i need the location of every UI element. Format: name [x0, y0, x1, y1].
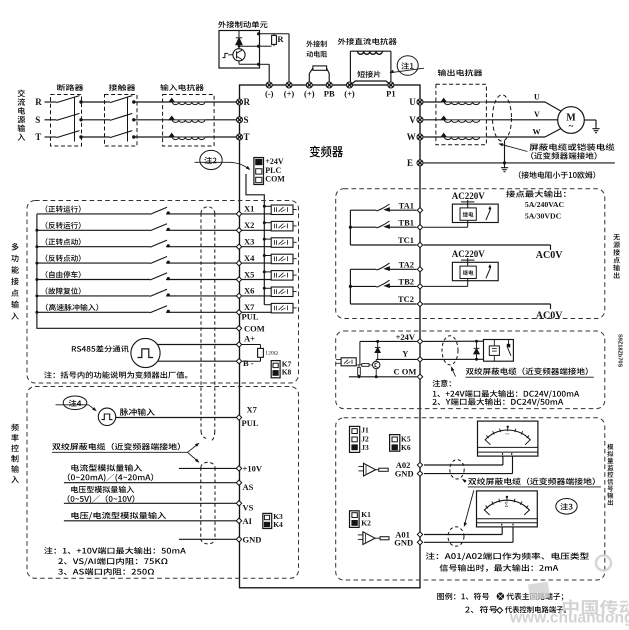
svg-text:TB2: TB2 — [398, 277, 414, 287]
svg-text:V: V — [534, 110, 540, 119]
group box analog outputs (dashed) — [336, 418, 605, 580]
notes analog input — [44, 547, 186, 554]
switch block K5/K6 — [390, 435, 400, 452]
svg-text:Σ: Σ — [505, 502, 509, 509]
svg-text:(+): (+) — [304, 89, 315, 99]
wire coil to TB1 — [467, 220, 469, 227]
breaker pole T — [54, 136, 57, 138]
svg-text:AC0V: AC0V — [536, 250, 563, 261]
node brake unit bottom-right — [257, 63, 260, 66]
wire brake unit top rail to (+) — [259, 33, 289, 35]
wire V to motor — [486, 119, 557, 121]
wire RS485 to B- — [158, 360, 237, 362]
terminal U — [417, 99, 423, 105]
wire meter A01 right to GND — [512, 527, 514, 542]
breaker trip link — [74, 97, 76, 142]
svg-text:U: U — [534, 92, 540, 101]
switch block K3/K4 — [263, 513, 272, 528]
op-amp A02 — [364, 463, 376, 476]
svg-text:PB: PB — [324, 89, 335, 99]
wire RS485 to A+ — [157, 344, 236, 346]
circuit breaker 断路器 (dashed box) — [51, 95, 82, 147]
svg-text:~: ~ — [505, 431, 509, 439]
terminal X5 — [236, 277, 241, 282]
node brake top-right — [257, 32, 260, 35]
wire Y internal — [376, 358, 417, 360]
terminal AI — [236, 518, 241, 523]
legend line 1 — [437, 593, 489, 600]
wire breaker-contactor R — [81, 101, 108, 103]
terminal AS — [236, 480, 241, 485]
label 屏蔽电缆或铠装电缆 — [529, 143, 614, 150]
internal +24V rail — [360, 340, 417, 342]
optocoupler X5 — [271, 271, 293, 281]
optocoupler X7 — [271, 303, 293, 313]
note: factory default functions — [44, 371, 187, 378]
label relay max output 接点最大输出 — [506, 190, 565, 197]
wire to AI — [64, 520, 237, 522]
svg-text:K4: K4 — [273, 520, 283, 529]
wire X5 to optocoupler — [242, 279, 272, 281]
terminal COM (output) — [417, 374, 422, 379]
notes analog output — [426, 552, 589, 560]
vertical label 频率控制输入 — [11, 424, 19, 483]
shielded cable capsule (analog inputs) — [201, 462, 215, 467]
svg-text:W: W — [407, 132, 416, 142]
output reactor 输出电抗器 (dashed box) — [436, 84, 487, 144]
svg-text:R: R — [277, 34, 284, 44]
contact TB1 — [350, 226, 376, 228]
terminal X7/PUL — [236, 415, 241, 420]
vertical label 无源接点输出 — [613, 234, 620, 279]
wire diode bottom rail to box edge — [239, 45, 259, 47]
label 接地电阻小于10欧姆 — [519, 171, 595, 178]
wire breaker-contactor T — [81, 136, 108, 138]
contact TB2 — [350, 285, 376, 287]
wire to VS — [64, 502, 237, 504]
wire coil W to motor — [480, 136, 487, 138]
wire V to output reactor — [423, 119, 441, 121]
svg-text:PUL: PUL — [242, 312, 259, 322]
switch input X3 （正转点动） — [46, 238, 81, 245]
terminal X2 — [236, 228, 241, 233]
wire meter A02 right to GND — [512, 456, 514, 474]
svg-text:TC2: TC2 — [398, 294, 414, 304]
meter A01 — [477, 491, 538, 527]
svg-text:P1: P1 — [386, 89, 395, 99]
wire coil U to motor — [480, 101, 487, 103]
relay contact bracket TA2 — [349, 269, 351, 304]
svg-text:+24V: +24V — [265, 157, 284, 166]
wire reactor-S terminal — [205, 119, 237, 121]
wire S to breaker — [45, 119, 54, 121]
output reactor coil V — [441, 116, 446, 120]
wire R to breaker — [45, 101, 54, 103]
input reactor 输入电抗器 (dashed box) — [163, 95, 215, 147]
switch input X6 （故障复位） — [46, 287, 81, 294]
switch input X2 （反转运行） — [46, 222, 81, 229]
vertical label 模拟量监控信号输出 — [607, 444, 613, 506]
terminal VS — [236, 501, 241, 506]
terminal Y — [417, 357, 422, 362]
contactor pole R — [108, 101, 111, 103]
connector +24V/PLC/COM — [254, 158, 264, 185]
svg-text:X7: X7 — [247, 404, 258, 414]
svg-text:(+): (+) — [284, 89, 295, 99]
wire W to output reactor — [423, 136, 441, 138]
svg-text:X5: X5 — [244, 269, 254, 279]
wire U to motor — [486, 101, 545, 103]
svg-text:T: T — [244, 132, 250, 142]
internal opto coupler — [341, 358, 356, 366]
wire X1 to optocoupler — [242, 213, 272, 215]
terminating resistor 120ohm — [242, 344, 261, 346]
breaker pole R — [54, 101, 57, 103]
svg-text:5A/30VDC: 5A/30VDC — [525, 212, 562, 221]
terminal GND (A02) — [417, 471, 422, 476]
inverter main box 变频器 — [240, 85, 421, 588]
label 脉冲输入 — [120, 408, 155, 416]
svg-text:TA2: TA2 — [399, 260, 414, 270]
svg-text:K2: K2 — [361, 519, 371, 528]
external brake unit label 外接制动单元 — [218, 21, 267, 28]
input reactor coil S — [169, 116, 174, 120]
svg-text:AC0V: AC0V — [536, 310, 563, 321]
wire TC2 to AC0V — [423, 303, 550, 305]
svg-text:Y: Y — [402, 349, 408, 359]
terminal A01 — [417, 532, 422, 537]
optocoupler X1 — [271, 205, 293, 215]
node brake mid-right — [257, 45, 260, 48]
leader arrow to output cable — [500, 144, 528, 152]
svg-text:R: R — [244, 97, 251, 107]
terminal COM — [236, 326, 241, 331]
svg-text:X6: X6 — [244, 286, 254, 296]
terminal TC2 — [417, 301, 422, 306]
wire transistor emitter to bottom rail — [238, 61, 240, 64]
base resistor — [362, 364, 369, 367]
wire contactor-reactor R — [134, 101, 172, 103]
wire motor to ground — [584, 119, 596, 121]
wire X3 to optocoupler — [242, 246, 272, 248]
switch input X4 （反转点动） — [46, 255, 81, 262]
wire TC1 — [350, 244, 416, 246]
switch input X7 （高速脉冲输入） — [46, 304, 98, 311]
external DC reactor coil — [349, 51, 351, 82]
contact TA2 — [350, 268, 376, 270]
wire coil to TB2 — [467, 279, 469, 287]
wire +24V to external relay — [423, 340, 483, 342]
twisted pair ellipse A02 — [450, 460, 464, 479]
svg-text:V: V — [409, 115, 416, 125]
switch block K7/K8 — [271, 361, 280, 378]
terminal A+ — [236, 342, 241, 347]
svg-text:TA1: TA1 — [399, 200, 414, 210]
terminal T — [237, 134, 243, 140]
external brake resistor — [309, 68, 313, 82]
label current-type analog input — [71, 464, 142, 471]
meter A02 — [478, 421, 538, 456]
terminal W — [417, 134, 423, 140]
optocoupler X4 — [271, 254, 293, 264]
contactor pole T — [108, 136, 111, 138]
terminal TB2 — [417, 284, 422, 289]
svg-text:120Ω: 120Ω — [265, 350, 278, 356]
terminal (-) — [266, 82, 272, 88]
output reactor coil W — [441, 133, 446, 137]
wire X6 to optocoupler — [242, 295, 272, 297]
gate drive pulse symbol — [222, 53, 228, 57]
group box 多功能接点输入 (dashed) — [27, 201, 299, 384]
terminal GND (A01) — [417, 540, 422, 545]
terminal (+) — [306, 82, 312, 88]
contactor pole S — [108, 119, 111, 121]
svg-text:~: ~ — [569, 121, 574, 131]
wire X4 to optocoupler — [242, 262, 272, 264]
notes Y output — [433, 380, 451, 387]
svg-text:PLC: PLC — [265, 166, 281, 175]
svg-text:B -: B - — [243, 358, 254, 368]
terminal X7 — [236, 310, 241, 315]
terminal TC1 — [417, 242, 422, 247]
svg-text:COM: COM — [244, 324, 265, 334]
terminal X3 — [236, 244, 241, 249]
svg-text:COM: COM — [265, 175, 285, 184]
node shield ground junction — [503, 161, 506, 164]
wire E ground bus — [423, 162, 615, 164]
svg-text:(+): (+) — [344, 89, 355, 99]
terminal (+) — [347, 82, 353, 88]
breaker pole S — [54, 119, 57, 121]
terminal GND (analog in) — [236, 537, 241, 542]
external brake resistor label 外接制动电阻 — [306, 41, 326, 48]
wire W to motor — [486, 136, 545, 138]
output cable shield ellipse — [493, 95, 512, 141]
op-amp A01 — [363, 532, 375, 545]
svg-text:PUL: PUL — [242, 418, 259, 428]
svg-text:J1: J1 — [361, 425, 369, 434]
motor M — [558, 107, 585, 134]
external load relay box — [484, 340, 514, 362]
wire pulse to X7/PUL — [116, 417, 237, 419]
svg-text:5A/240VAC: 5A/240VAC — [525, 200, 565, 209]
optocoupler X3 — [271, 238, 293, 248]
wire contactor-reactor T — [134, 136, 172, 138]
svg-text:T: T — [35, 132, 41, 142]
wire X2 to optocoupler — [242, 229, 272, 231]
callout note4 注4 — [63, 396, 87, 410]
wire +10V stub — [179, 467, 237, 469]
terminal E — [417, 160, 423, 166]
svg-text:GND: GND — [243, 535, 262, 545]
terminal TA1 — [417, 208, 422, 213]
wire coil V to motor — [480, 119, 487, 121]
label voltage-type analog input — [71, 486, 134, 493]
external DC reactor label 外接直流电抗器 — [338, 38, 397, 45]
callout note2 注2 — [200, 150, 222, 169]
relay contact bracket TA1 — [349, 210, 351, 245]
svg-text:+10V: +10V — [243, 464, 263, 474]
optocoupler X2 — [271, 221, 293, 231]
svg-text:A+: A+ — [244, 333, 255, 343]
svg-text:C OM: C OM — [394, 367, 417, 377]
terminal R — [237, 99, 243, 105]
svg-text:X7: X7 — [244, 302, 255, 312]
svg-text:www.chuandong.com: www.chuandong.com — [509, 610, 629, 627]
terminal B- — [236, 359, 241, 364]
watermark chuandong — [509, 556, 629, 627]
label voltage/current analog input — [71, 512, 166, 520]
leader to lower ellipse — [464, 490, 474, 525]
svg-text:S9Z18Zb70S: S9Z18Zb70S — [617, 334, 623, 368]
svg-text:AI: AI — [243, 516, 253, 526]
terminal TB1 — [417, 225, 422, 230]
terminal (+) — [286, 82, 292, 88]
wire reactor-R terminal — [205, 101, 237, 103]
svg-text:R: R — [35, 97, 42, 107]
terminal PB — [326, 82, 332, 88]
input reactor coil T — [169, 133, 174, 137]
shorting link 短接片 — [350, 81, 391, 85]
svg-text:X4: X4 — [244, 253, 255, 263]
left common bus for X inputs — [37, 214, 237, 328]
pulse input source circle — [98, 408, 115, 425]
svg-text:AS: AS — [243, 482, 254, 492]
terminal TA2 — [417, 267, 422, 272]
zener to Y — [375, 346, 380, 348]
external brake unit box — [219, 31, 260, 69]
svg-text:E: E — [407, 158, 413, 168]
svg-text:AC220V: AC220V — [452, 249, 485, 259]
svg-text:AC220V: AC220V — [452, 191, 485, 201]
terminal X6 — [236, 293, 241, 298]
svg-text:X1: X1 — [244, 204, 254, 214]
svg-text:GND: GND — [395, 469, 414, 479]
label twisted cable (Y) — [466, 367, 588, 374]
contact TA1 — [350, 209, 376, 211]
label twisted cable (analog out) — [468, 478, 595, 485]
terminal X4 — [236, 260, 241, 265]
twisted pair ellipse (Y) — [442, 336, 458, 365]
svg-text:GND: GND — [394, 538, 413, 548]
group box 频率控制输入 (dashed) — [27, 387, 299, 579]
relay contact (load) — [507, 344, 510, 347]
vertical label 多功能接点输入 — [11, 243, 19, 320]
brake transistor Q (IGBT) — [233, 49, 245, 61]
svg-text:TC1: TC1 — [398, 235, 414, 245]
svg-text:S: S — [244, 115, 249, 125]
svg-text:+24V: +24V — [396, 332, 416, 342]
terminal +10V — [236, 466, 241, 471]
svg-text:K6: K6 — [401, 443, 411, 452]
terminal +24V — [417, 339, 422, 344]
input reactor coil R — [169, 98, 174, 102]
group box Y output (dashed) — [336, 331, 605, 409]
svg-text:K8: K8 — [282, 368, 292, 377]
contactor link — [127, 97, 129, 142]
wire U to output reactor — [423, 101, 441, 103]
ground symbol (shield) — [504, 165, 506, 168]
terminal P1 — [388, 82, 394, 88]
group box relay outputs (dashed) — [336, 189, 605, 319]
wire meter A01 left — [501, 527, 503, 535]
wire to AS — [64, 482, 237, 484]
jumper block K1/K2 — [350, 511, 360, 528]
callout note3 注3 — [556, 499, 577, 515]
contactor 接触器 (dashed box) — [105, 95, 138, 147]
svg-text:J3: J3 — [361, 443, 369, 452]
relay contact inside (TA2) — [489, 265, 491, 268]
wire PLC common to opto bus — [246, 174, 264, 305]
svg-text:VS: VS — [243, 503, 254, 513]
svg-text:X2: X2 — [244, 220, 254, 230]
output transistor Y — [373, 361, 380, 368]
svg-text:U: U — [409, 97, 416, 107]
svg-text:TB1: TB1 — [398, 217, 414, 227]
wire TC1 to AC0V — [423, 244, 550, 246]
relay contact inside (TA1) — [489, 206, 491, 209]
optocoupler X6 — [271, 287, 293, 297]
motor ground — [595, 126, 597, 129]
wire Y to external relay — [423, 358, 483, 360]
wire GND stub — [179, 538, 237, 540]
terminal A02 — [417, 462, 422, 467]
switch input X1 （正转运行） — [46, 205, 81, 212]
switch input X5 （自由停车） — [46, 271, 81, 278]
wire COM internal — [349, 376, 417, 378]
jumper block J1/J2/J3 — [350, 426, 360, 452]
terminal S — [237, 117, 243, 123]
terminal V — [417, 117, 423, 123]
wire TC2 — [350, 303, 416, 305]
label twisted shielded cable (analog in) — [52, 443, 180, 450]
wire contactor-reactor S — [134, 119, 172, 121]
svg-text:W: W — [533, 127, 541, 136]
twisted pair ellipse A01 — [448, 527, 464, 546]
terminal X1 — [236, 211, 241, 216]
svg-text:(-): (-) — [265, 89, 274, 99]
wire brake unit to (-) terminal — [259, 63, 270, 65]
wire reactor-T terminal — [205, 136, 237, 138]
RS485 differential comms source — [72, 345, 129, 352]
wire T to breaker — [45, 136, 54, 138]
wire breaker-contactor S — [81, 119, 108, 121]
wire X7 to optocoupler — [242, 311, 272, 313]
shielded cable (X inputs) dashed pair — [201, 207, 215, 214]
svg-text:X3: X3 — [244, 237, 254, 247]
brake resistor R — [273, 34, 275, 36]
wire meter A02 left — [502, 456, 504, 465]
svg-text:S: S — [35, 115, 40, 125]
zener diode in brake unit — [238, 31, 240, 38]
output reactor coil U — [441, 98, 446, 102]
vertical label 交流电源输入 — [18, 89, 26, 140]
lower resistor to COM — [358, 367, 361, 375]
callout note1 注1 — [397, 56, 418, 76]
legend line 2 — [465, 606, 497, 613]
flyback diode — [475, 340, 478, 343]
